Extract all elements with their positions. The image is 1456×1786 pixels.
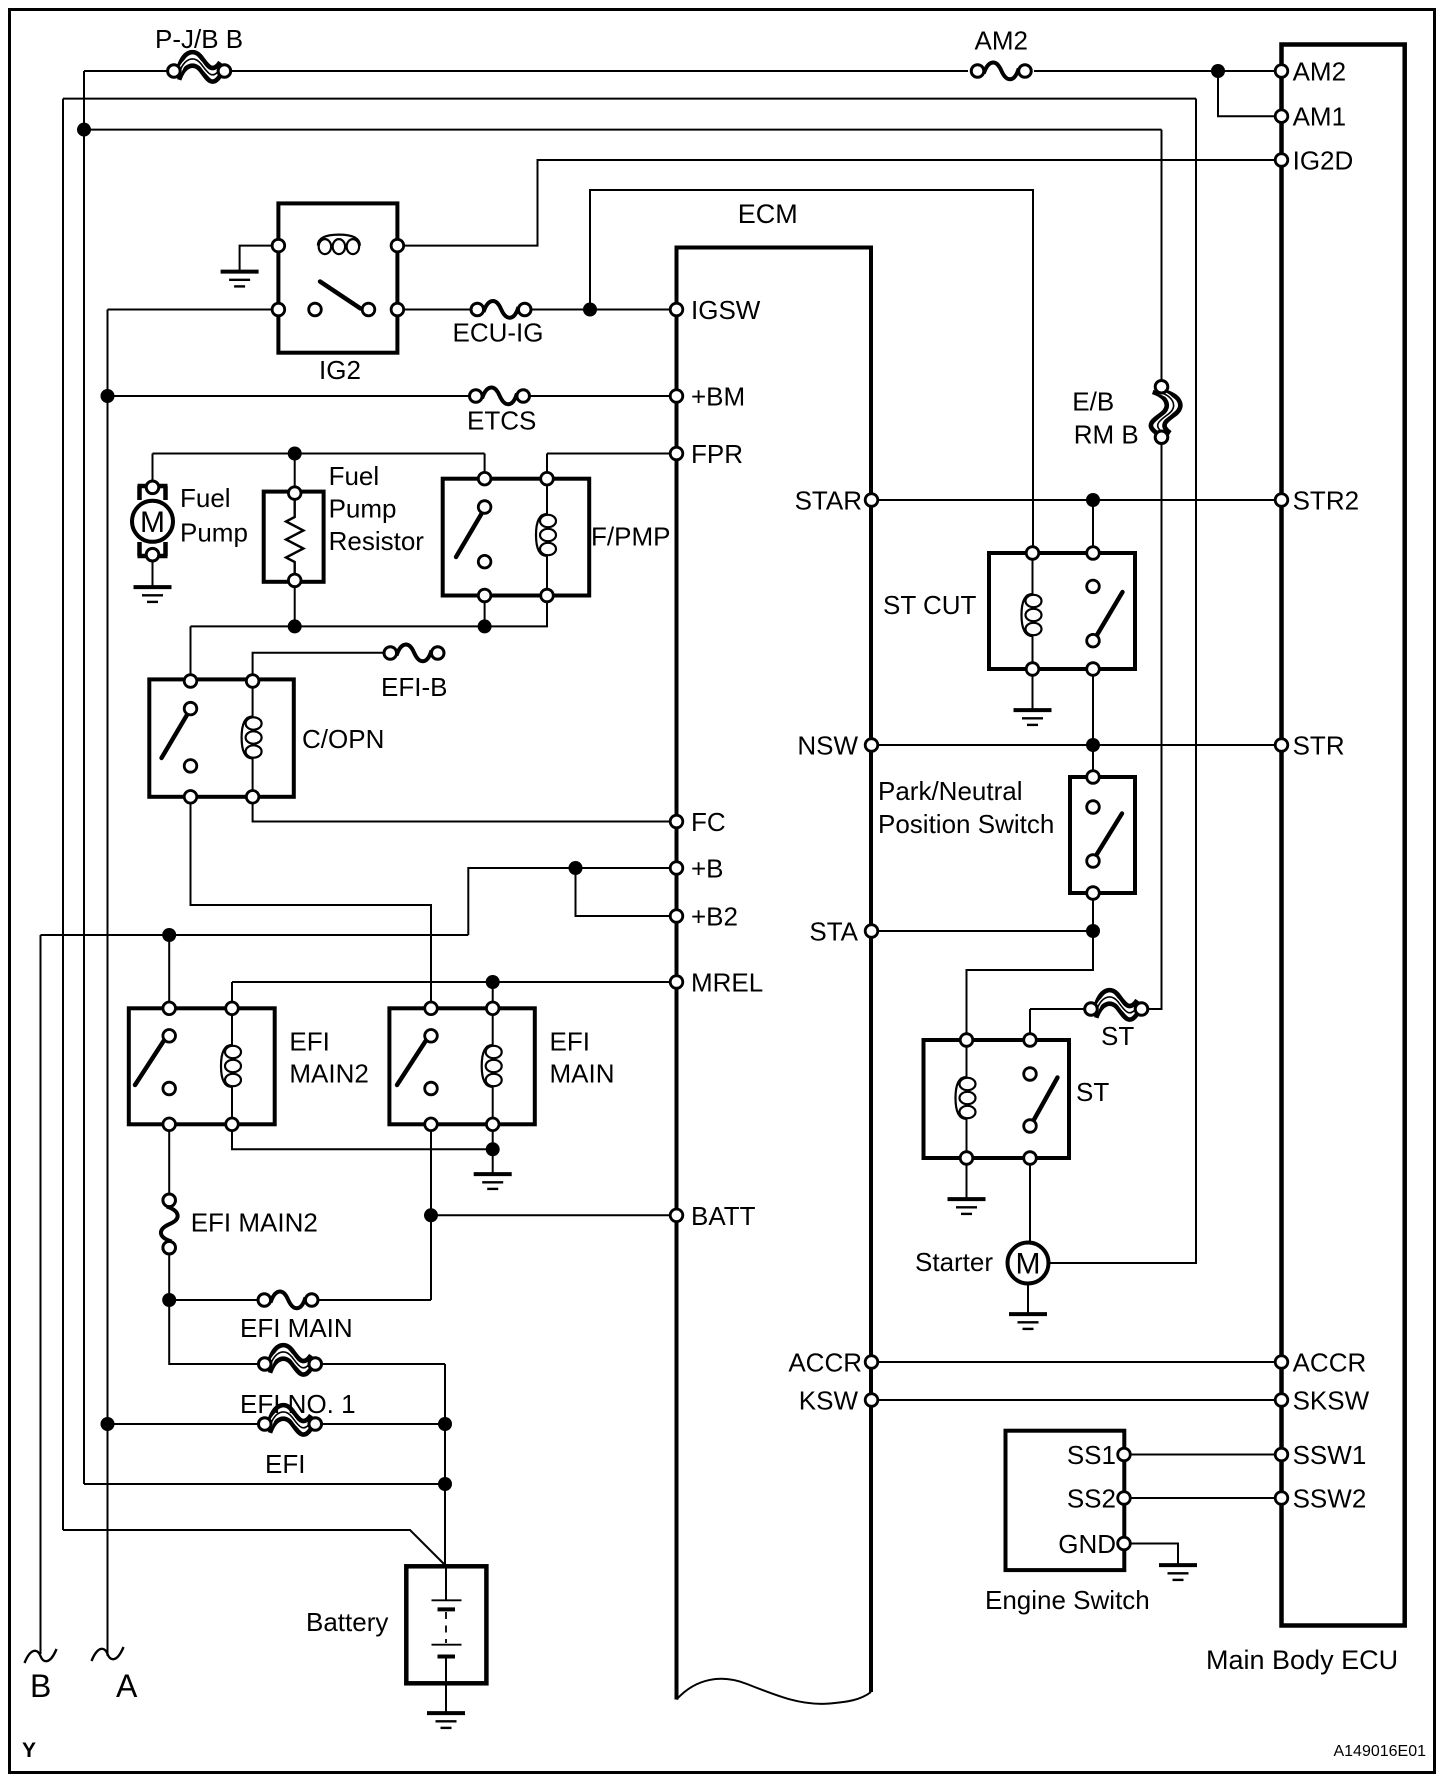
terminal F/PMP coil bottom — [541, 589, 554, 602]
wire fuse to IGSW pin — [525, 309, 677, 311]
svg-text:EFI MAIN: EFI MAIN — [240, 1313, 353, 1343]
wire EFI NO1 fuse right — [322, 1363, 446, 1365]
wire x445 drop to battery — [444, 1364, 446, 1566]
coil of relay IG2 — [318, 235, 360, 255]
wire EFI MAIN coil leads — [492, 1008, 494, 1124]
svg-text:Engine Switch: Engine Switch — [985, 1585, 1150, 1615]
svg-text:MAIN2: MAIN2 — [289, 1059, 368, 1089]
wire ACCR row — [872, 1361, 1282, 1363]
node EFI MAIN fuse row — [162, 1293, 176, 1307]
terminal resistor top — [288, 487, 301, 500]
wire vertical x1161.5 upper — [1161, 130, 1163, 386]
terminal IG2 switch left — [272, 303, 285, 316]
svg-text:EFI-B: EFI-B — [381, 672, 447, 702]
contact F/PMP upper — [478, 501, 491, 514]
wire MREL elbow to EFI MAIN2 coil — [231, 982, 233, 1008]
wire ST switch bottom to starter — [1029, 1158, 1031, 1242]
pin IG2D (Main Body ECU) — [1275, 154, 1288, 167]
wire y626 row — [191, 625, 485, 627]
fuse E/B RM B (breaker) — [1151, 380, 1180, 443]
terminal ST coil bottom — [960, 1152, 973, 1165]
wire EFI MAIN2 coil bottom to ground node — [232, 1124, 493, 1149]
svg-text:IG2: IG2 — [319, 355, 361, 385]
wire x169.2 fuse to corner — [169, 1249, 258, 1364]
wire STAR row — [872, 499, 1282, 501]
terminal IG2 coil right — [391, 239, 404, 252]
contact C/OPN lower — [184, 760, 197, 773]
svg-text:A149016E01: A149016E01 — [1333, 1743, 1426, 1760]
wire y71 mid — [231, 70, 968, 72]
svg-text:SKSW: SKSW — [1293, 1386, 1370, 1416]
terminal C/OPN coil bottom — [246, 791, 259, 804]
wire resistor top drop — [294, 454, 296, 494]
terminal EFI MAIN2 coil top — [226, 1002, 239, 1015]
pin IGSW — [670, 303, 683, 316]
svg-text:A: A — [116, 1668, 138, 1704]
node STA junction — [1086, 924, 1100, 938]
wire ST CUT switch bottom to P/N — [1092, 669, 1094, 777]
fuse EFI-B — [384, 645, 444, 662]
pin STR (Main Body ECU) — [1275, 739, 1288, 752]
contact EFI MAIN lower — [425, 1082, 438, 1095]
pin STAR — [865, 494, 878, 507]
svg-text:IG2D: IG2D — [1293, 146, 1354, 176]
wire ST coil leads — [966, 1040, 968, 1158]
terminal ST switch top — [1024, 1034, 1037, 1047]
switch blade of Park/Neutral switch — [1095, 814, 1123, 859]
node STAR / ST CUT switch — [1086, 493, 1100, 507]
wire FPR row left — [153, 453, 485, 455]
wire FPR row right — [547, 453, 677, 455]
svg-text:Starter: Starter — [915, 1247, 993, 1277]
svg-text:Pump: Pump — [329, 494, 397, 524]
svg-text:ST CUT: ST CUT — [883, 590, 977, 620]
contact C/OPN upper — [184, 702, 197, 715]
wire ST switch top drop — [1029, 1009, 1031, 1040]
pin +BM — [670, 390, 683, 403]
wire y935 line B — [41, 934, 469, 936]
svg-text:KSW: KSW — [799, 1386, 859, 1416]
svg-text:ACCR: ACCR — [1293, 1348, 1367, 1378]
wire F/PMP coil leads — [546, 479, 548, 596]
wire C/OPN switch to EFI MAIN switch — [191, 797, 432, 1009]
ground at ST CUT coil — [1014, 710, 1052, 725]
svg-text:STAR: STAR — [795, 486, 862, 516]
svg-text:Position Switch: Position Switch — [878, 809, 1054, 839]
svg-text:SSW2: SSW2 — [1293, 1484, 1367, 1514]
terminal IG2 coil left — [272, 239, 285, 252]
svg-text:STR: STR — [1293, 731, 1345, 761]
relay C/OPN box — [149, 679, 293, 796]
switch blade of IG2 — [320, 282, 361, 309]
ground at IG2 coil — [221, 272, 259, 287]
svg-text:EFI NO. 1: EFI NO. 1 — [240, 1389, 356, 1419]
node F/PMP switch bottom — [478, 619, 492, 633]
svg-text:SSW1: SSW1 — [1293, 1440, 1367, 1470]
pin SKSW (Main Body ECU) — [1275, 1394, 1288, 1407]
svg-text:B: B — [30, 1668, 51, 1704]
fuel pump resistor box — [264, 492, 324, 582]
pin FC — [670, 815, 683, 828]
relay EFI MAIN box — [389, 1008, 534, 1124]
svg-text:IGSW: IGSW — [691, 295, 761, 325]
fuse EFI MAIN — [258, 1292, 318, 1309]
ground at engine switch GND — [1159, 1565, 1197, 1580]
pin BATT — [670, 1209, 683, 1222]
wire vertical x63 — [62, 99, 64, 1530]
svg-text:E/B: E/B — [1072, 387, 1114, 417]
pin GND (engine switch) — [1118, 1537, 1131, 1550]
wire ST fuse left link — [1030, 1008, 1092, 1010]
svg-text:FC: FC — [691, 807, 726, 837]
svg-text:Fuel: Fuel — [180, 483, 231, 513]
svg-text:C/OPN: C/OPN — [302, 724, 384, 754]
terminal ST CUT coil bottom — [1026, 663, 1039, 676]
wire ETCS fuse to +BM — [523, 395, 677, 397]
wire EFI MAIN switch bottom to fuse row — [430, 1124, 432, 1300]
ground at starter — [1009, 1314, 1047, 1329]
node +B / +B2 split — [569, 861, 583, 875]
terminal F/PMP coil top — [541, 472, 554, 485]
wire EFI MAIN2 switch top — [168, 935, 170, 1008]
node EFI fuse right on x445 — [438, 1417, 452, 1431]
wire GND jog — [1124, 1544, 1178, 1565]
pin AM2 (Main Body ECU) — [1275, 65, 1288, 78]
terminal C/OPN coil top — [246, 675, 259, 688]
terminal P/N bottom — [1087, 887, 1100, 900]
pin KSW — [865, 1394, 878, 1407]
wire ST fuse right link — [1141, 1008, 1162, 1010]
svg-text:AM2: AM2 — [1293, 57, 1346, 87]
node resistor bottom row — [288, 619, 302, 633]
wire y1530 to battery — [63, 1530, 446, 1566]
svg-text:BATT: BATT — [691, 1201, 756, 1231]
svg-text:SS1: SS1 — [1067, 1440, 1116, 1470]
wire IG2 switch to fuse — [397, 309, 477, 311]
wire EFI MAIN coil bottom to ground — [492, 1124, 494, 1173]
wire x190.5 drop to C/OPN — [190, 626, 192, 681]
resistor element (fuel pump resistor) — [286, 499, 303, 580]
wire resistor bottom drop — [294, 580, 296, 626]
node MREL / EFI MAIN coil — [486, 975, 500, 989]
wire EFI MAIN fuse row left — [169, 1299, 258, 1301]
svg-text:F/PMP: F/PMP — [591, 522, 670, 552]
svg-text:EFI MAIN2: EFI MAIN2 — [191, 1208, 318, 1238]
contact EFI MAIN2 upper — [163, 1030, 176, 1043]
connector break mark B — [25, 1649, 57, 1663]
Main Body ECU box — [1282, 45, 1405, 1626]
wire C/OPN coil to FC — [253, 797, 677, 822]
coil of relay C/OPN — [242, 717, 262, 759]
contact ST upper — [1024, 1068, 1037, 1081]
svg-text:+B: +B — [691, 854, 724, 884]
svg-text:STR2: STR2 — [1293, 486, 1359, 516]
Park/Neutral position switch box — [1070, 777, 1135, 893]
coil of relay ST — [956, 1077, 976, 1119]
pin SSW1 (Main Body ECU) — [1275, 1448, 1288, 1461]
fuse ST (breaker) — [1085, 990, 1148, 1019]
svg-text:M: M — [1016, 1248, 1041, 1281]
svg-text:Y: Y — [22, 1739, 36, 1762]
svg-text:Fuel: Fuel — [329, 461, 380, 491]
battery box — [406, 1566, 486, 1683]
pin ACCR (Main Body ECU) — [1275, 1356, 1288, 1369]
pin NSW — [865, 739, 878, 752]
wire AM1 jog — [1218, 71, 1282, 116]
wire EFI fuse right — [322, 1423, 446, 1425]
terminal IG2 switch right — [391, 303, 404, 316]
contact P/N lower — [1087, 855, 1100, 868]
wire fuel pump to ground — [152, 555, 154, 586]
relay EFI MAIN2 box — [129, 1008, 275, 1124]
switch blade of EFI MAIN2 — [135, 1034, 169, 1086]
switch blade of EFI MAIN — [397, 1034, 431, 1086]
svg-text:+B2: +B2 — [691, 902, 738, 932]
terminal ST coil top — [960, 1034, 973, 1047]
node FPR row / resistor top — [288, 447, 302, 461]
contact IG2 left — [309, 303, 322, 316]
pin FPR — [670, 447, 683, 460]
svg-text:MAIN: MAIN — [550, 1059, 615, 1089]
svg-text:ST: ST — [1076, 1077, 1109, 1107]
wire FPMP switch bottom drop — [484, 596, 486, 627]
wire P/N bottom through STA to jog — [967, 893, 1094, 1040]
ECM box — [677, 248, 872, 1704]
terminal C/OPN switch top — [184, 675, 197, 688]
node AM2/AM1 split — [1211, 64, 1225, 78]
svg-text:RM B: RM B — [1074, 420, 1139, 450]
wire ETCS row left — [108, 395, 477, 397]
svg-text:ECU-IG: ECU-IG — [453, 318, 544, 348]
pin STR2 (Main Body ECU) — [1275, 494, 1288, 507]
contact ST CUT upper — [1087, 580, 1100, 593]
fuse P-J/B B (breaker) — [168, 52, 231, 81]
svg-text:EFI: EFI — [289, 1027, 329, 1057]
ground at battery — [427, 1713, 465, 1728]
wire +B2 jog — [576, 868, 677, 916]
node ETCS row on line A — [101, 389, 115, 403]
terminal EFI MAIN switch top — [425, 1002, 438, 1015]
fuse EFI NO. 1 (breaker) — [258, 1345, 321, 1374]
contact IG2 right — [362, 303, 375, 316]
relay ST box — [924, 1040, 1070, 1158]
terminal resistor bottom — [288, 574, 301, 587]
terminal EFI MAIN2 switch top — [163, 1002, 176, 1015]
svg-text:ACCR: ACCR — [788, 1348, 862, 1378]
wire fuel pump drop — [152, 454, 154, 488]
wire C/OPN coil leads — [252, 681, 254, 797]
wire SS2 row — [1124, 1497, 1282, 1499]
node IGSW junction — [583, 303, 597, 317]
fuse ECU-IG — [471, 301, 531, 318]
wire ST coil bottom to ground — [966, 1158, 968, 1198]
starter motor M2 — [1008, 1243, 1049, 1284]
wire IGSW row left — [108, 309, 279, 311]
svg-text:ST: ST — [1101, 1021, 1134, 1051]
wire IG2 coil to ground — [240, 246, 279, 270]
pin ACCR (ECM) — [865, 1356, 878, 1369]
wire MREL row — [232, 981, 677, 983]
wire ST CUT coil top — [1032, 553, 1034, 594]
svg-text:M: M — [140, 506, 165, 539]
wire +B — [468, 868, 676, 935]
terminal F/PMP switch top — [478, 472, 491, 485]
relay IG2 box — [278, 203, 397, 352]
wire B+ top bus y71 left — [84, 70, 167, 72]
terminal EFI MAIN2 coil bottom — [226, 1118, 239, 1131]
wire EFI MAIN2 switch bottom to fuse — [168, 1124, 170, 1199]
wire KSW row — [872, 1399, 1282, 1401]
contact EFI MAIN2 lower — [163, 1082, 176, 1095]
node EFI fuse row on line A — [101, 1417, 115, 1431]
svg-text:FPR: FPR — [691, 439, 743, 469]
switch blade of F/PMP — [456, 510, 484, 558]
wire FPMP coil top rise — [546, 454, 548, 479]
svg-text:GND: GND — [1058, 1529, 1116, 1559]
pin +B — [670, 862, 683, 875]
svg-text:NSW: NSW — [797, 731, 858, 761]
pin STA — [865, 925, 878, 938]
connector break mark A — [92, 1647, 124, 1661]
pin AM1 (Main Body ECU) — [1275, 110, 1288, 123]
switch blade of ST — [1031, 1078, 1058, 1126]
wire vertical x107.5 line A — [107, 310, 109, 1657]
svg-text:ECM: ECM — [738, 199, 798, 229]
node on y129.6 bus at x84 — [77, 123, 91, 137]
node y1484 on x445 — [438, 1477, 452, 1491]
coil of relay EFI MAIN — [482, 1045, 502, 1087]
fuse ETCS — [470, 388, 530, 405]
wire IGSW jog to ST CUT coil — [590, 190, 1033, 553]
wire EFI MAIN coil top rise — [492, 982, 494, 1008]
wire y129.6 bus — [84, 129, 1162, 131]
svg-text:Pump: Pump — [180, 518, 248, 548]
terminal EFI MAIN switch bottom — [425, 1118, 438, 1131]
wire vertical x40.5 line B — [40, 935, 42, 1654]
svg-text:Park/Neutral: Park/Neutral — [878, 776, 1023, 806]
terminal F/PMP switch bottom — [478, 589, 491, 602]
node line B / EFI MAIN2 switch — [162, 928, 176, 942]
terminal ST CUT switch bottom — [1087, 663, 1100, 676]
svg-text:SS2: SS2 — [1067, 1484, 1116, 1514]
wire SS1 row — [1124, 1454, 1282, 1456]
node BATT junction — [424, 1208, 438, 1222]
contact P/N upper — [1087, 801, 1100, 814]
wire NSW row — [872, 744, 1282, 746]
svg-text:P-J/B B: P-J/B B — [155, 24, 243, 54]
terminal EFI MAIN coil bottom — [486, 1118, 499, 1131]
fuse EFI (breaker) — [258, 1405, 321, 1434]
svg-text:MREL: MREL — [691, 968, 763, 998]
wire IG2 coil right to IG2D — [397, 160, 1281, 246]
wire ST CUT coil bottom to ground — [1032, 636, 1034, 709]
pin MREL — [670, 976, 683, 989]
svg-text:Main Body ECU: Main Body ECU — [1206, 1645, 1398, 1675]
contact F/PMP lower — [478, 555, 491, 568]
terminal P/N top — [1087, 771, 1100, 784]
terminal EFI MAIN coil top — [486, 1002, 499, 1015]
svg-text:AM2: AM2 — [975, 26, 1028, 56]
wire vertical x1196 — [1049, 99, 1196, 1263]
node NSW / STR junction — [1086, 738, 1100, 752]
ground at EFI MAIN coil — [474, 1174, 512, 1189]
wire vertical x1161.5 lower — [1141, 439, 1162, 1010]
wire STA row — [872, 930, 1094, 932]
svg-text:+BM: +BM — [691, 382, 745, 412]
svg-text:EFI: EFI — [550, 1027, 590, 1057]
switch blade of ST CUT — [1094, 592, 1123, 640]
terminal ST CUT switch top — [1087, 547, 1100, 560]
svg-text:STA: STA — [809, 917, 858, 947]
node EFI MAIN coils ground — [486, 1142, 500, 1156]
svg-text:Battery: Battery — [306, 1607, 388, 1637]
svg-text:Resistor: Resistor — [329, 526, 425, 556]
wire y71 right to AM2 pin — [1034, 70, 1282, 72]
fuse AM2 — [971, 63, 1031, 80]
battery plates — [432, 1600, 462, 1656]
switch blade of C/OPN — [162, 712, 190, 759]
wire ST CUT switch top link — [1092, 500, 1094, 553]
wire FPMP switch top drop — [484, 454, 486, 479]
contact ST CUT lower — [1087, 634, 1100, 647]
wire battery bottom lead — [445, 1657, 447, 1712]
wire EFI MAIN fuse row right — [318, 1299, 432, 1301]
wire vertical x84 — [83, 71, 85, 1484]
wire EFI MAIN2 coil leads — [231, 1008, 233, 1124]
wire FPMP coil bottom jog — [485, 596, 547, 627]
pin SS1 (engine switch) — [1118, 1448, 1131, 1461]
wire battery top lead — [445, 1566, 447, 1600]
terminal EFI MAIN2 switch bottom — [163, 1118, 176, 1131]
terminal ST switch bottom — [1024, 1152, 1037, 1165]
svg-text:ETCS: ETCS — [467, 406, 536, 436]
svg-text:AM1: AM1 — [1293, 102, 1346, 132]
fuse EFI MAIN2 — [161, 1194, 178, 1254]
relay F/PMP box — [443, 479, 590, 596]
wire y98.6 bus — [63, 98, 1196, 100]
wire C/OPN coil to EFI-B fuse — [253, 653, 391, 681]
coil of relay EFI MAIN2 — [221, 1045, 241, 1087]
terminal ST CUT coil top — [1026, 547, 1039, 560]
svg-text:EFI: EFI — [265, 1449, 305, 1479]
engine switch box — [1006, 1431, 1125, 1570]
pin +B2 — [670, 910, 683, 923]
contact ST lower — [1024, 1120, 1037, 1133]
ground at ST coil — [948, 1199, 986, 1214]
terminal C/OPN switch bottom — [184, 791, 197, 804]
pin SS2 (engine switch) — [1118, 1492, 1131, 1505]
coil of relay F/PMP — [536, 514, 556, 556]
wire BATT row — [431, 1214, 677, 1216]
contact EFI MAIN upper — [425, 1030, 438, 1043]
coil of relay ST CUT — [1022, 594, 1042, 636]
ground at fuel pump — [134, 587, 172, 602]
wire starter to ground — [1027, 1284, 1029, 1313]
fuel pump motor M1 — [132, 481, 173, 561]
wire y1484 — [84, 1483, 445, 1485]
pin SSW2 (Main Body ECU) — [1275, 1492, 1288, 1505]
relay ST CUT box — [989, 553, 1135, 669]
wire EFI row left — [108, 1423, 259, 1425]
